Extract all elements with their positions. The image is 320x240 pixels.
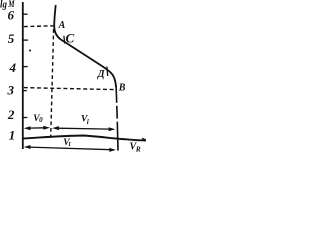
tick 6 bbox=[23, 13, 28, 15]
svg-text:C: C bbox=[66, 31, 75, 46]
svg-text:B: B bbox=[118, 83, 126, 94]
tick 4 bbox=[23, 66, 28, 68]
x-axis end barb bbox=[142, 138, 146, 140]
V0 arrow bbox=[29, 127, 45, 129]
svg-text:5: 5 bbox=[8, 31, 15, 46]
y-axis bbox=[22, 2, 24, 149]
x-axis bbox=[22, 136, 146, 141]
dashed horizontal at B level bbox=[24, 88, 115, 90]
svg-text:3: 3 bbox=[7, 83, 15, 98]
tick 2 bbox=[23, 117, 27, 119]
svg-text:Д: Д bbox=[97, 69, 106, 80]
tick 3 bbox=[23, 90, 27, 92]
stray dot bbox=[29, 50, 31, 52]
dashed vertical from A to x-axis bbox=[51, 29, 54, 137]
svg-text:lg: lg bbox=[0, 0, 7, 10]
svg-text:t: t bbox=[69, 140, 72, 148]
svg-text:6: 6 bbox=[8, 7, 15, 22]
svg-text:1: 1 bbox=[9, 127, 16, 142]
svg-text:i: i bbox=[87, 117, 90, 126]
svg-text:4: 4 bbox=[9, 60, 17, 75]
svg-text:R: R bbox=[135, 145, 141, 154]
svg-text:A: A bbox=[58, 20, 66, 31]
svg-text:0: 0 bbox=[39, 116, 43, 124]
point D tick bbox=[106, 67, 109, 77]
Vt arrow bbox=[29, 147, 111, 150]
point C tick bbox=[63, 36, 66, 44]
vertical from B to Vt arrow bbox=[116, 86, 118, 151]
svg-text:2: 2 bbox=[7, 107, 15, 122]
Vi arrow bbox=[58, 127, 111, 130]
calibration curve bbox=[54, 5, 116, 87]
tick 5 bbox=[23, 39, 28, 41]
dashed horizontal at A level bbox=[24, 25, 54, 28]
